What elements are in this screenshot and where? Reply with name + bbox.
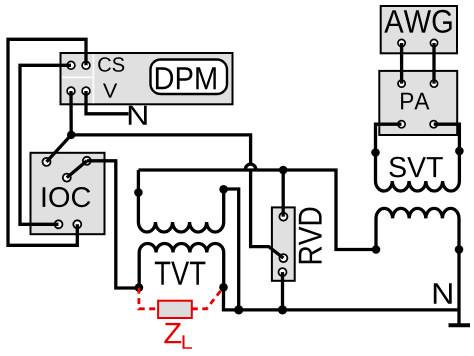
- wire W7: IOC switch blade middle to top-right terminal: [67, 161, 87, 178]
- wire W1: DPM CS-right terminal up-left-down to IOC bottom-right terminal: [8, 39, 86, 245]
- junction dot on neutral line below RVD: [278, 305, 287, 314]
- wire W4: switch blade from node A diagonal to IOC top-left terminal: [47, 135, 72, 162]
- wire W8: IOC top-right terminal right and down to TVT secondary left end: [87, 161, 139, 288]
- RVD terminal top: [279, 213, 287, 221]
- PA terminal top-left: [398, 80, 405, 87]
- SVT secondary right node dot: [455, 245, 464, 254]
- IOC terminal bottom-left: [55, 220, 63, 228]
- DPM internal divider lines: [92, 54, 94, 103]
- wire W3: DPM V-left terminal down to node A: [69, 91, 72, 135]
- label DPM: [156, 67, 216, 89]
- wire: RVD bottom terminal down to neutral line: [281, 272, 284, 310]
- DPM terminal CS-left: [67, 61, 75, 69]
- label IOC: [43, 187, 91, 207]
- node A junction dot: [67, 131, 75, 139]
- SVT primary right feed dot: [455, 147, 464, 156]
- wire: AWG left to PA left input: [400, 43, 403, 84]
- label PA: [401, 93, 429, 110]
- node dot: RVD top tap on bus: [279, 166, 288, 175]
- box IOC (switch box) body: [31, 153, 105, 234]
- transformer SVT secondary winding: [376, 208, 459, 325]
- wire W6: DPM V-right terminal down and right to N label: [86, 91, 129, 114]
- wire: RVD top terminal up to bus: [282, 170, 285, 217]
- wire W5: node A right, down (hops over bus), right, diagonal into RVD middle terminal: [71, 135, 250, 164]
- wire W9: TVT primary right end right and down to bottom neutral line: [224, 189, 239, 310]
- label TVT: [155, 262, 206, 285]
- ground bar terminal: [449, 323, 471, 327]
- label N (neutral, bottom right): [434, 283, 452, 304]
- wire: PA bottom-right to SVT primary right: [434, 124, 460, 181]
- load Z_L red dashed wire left: [139, 288, 158, 309]
- IOC terminal middle: [63, 174, 71, 182]
- label SVT: [389, 157, 442, 178]
- transformer TVT primary winding: [138, 170, 223, 232]
- label AWG: [384, 10, 451, 33]
- RVD terminal bottom: [279, 268, 287, 276]
- transformer SVT primary winding: [376, 181, 460, 191]
- TVT primary left terminal dot: [134, 188, 143, 197]
- TVT primary right terminal dot: [219, 185, 228, 194]
- PA terminal top-right: [430, 80, 437, 87]
- box AWG (waveform generator) body: [381, 6, 457, 53]
- wire hop: W5 vertical hops over horizontal bus at y=170: [245, 164, 256, 170]
- transformer TVT secondary winding: [139, 244, 224, 288]
- SVT primary left feed dot: [371, 148, 380, 157]
- TVT secondary right node dot: [219, 283, 228, 292]
- AWG terminal right: [430, 39, 437, 46]
- label CS: [98, 57, 124, 72]
- IOC terminal top-left: [43, 158, 51, 166]
- SVT secondary left node dot: [372, 245, 381, 254]
- load resistor Z_L body: [158, 301, 192, 318]
- divider RVD strip body: [272, 207, 295, 280]
- IOC terminal bottom-right: [73, 220, 81, 228]
- label Z_L: [164, 323, 181, 343]
- wire: TVT secondary right down to bottom neutral line corner: [224, 287, 459, 310]
- load Z_L red dashed wire right: [192, 289, 223, 309]
- box PA (power amplifier) body: [379, 71, 457, 135]
- TVT secondary left node dot: [135, 283, 144, 292]
- DPM terminal V-left: [67, 87, 75, 95]
- PA terminal bottom-right: [430, 121, 437, 128]
- wire: PA bottom-left to SVT primary left: [376, 124, 402, 181]
- DPM terminal V-right: [82, 87, 90, 95]
- label V: [103, 84, 117, 98]
- RVD terminal middle: [279, 254, 287, 262]
- PA terminal bottom-left: [398, 121, 405, 128]
- box DPM (digital panel meter) body: [61, 53, 233, 104]
- horizontal bus wire y=170: TVT primary left to RVD top tap to SVT secondary feed: [138, 170, 376, 250]
- DPM terminal CS-right: [82, 61, 90, 69]
- junction dot on neutral line below TVT: [234, 305, 243, 314]
- AWG terminal left: [398, 39, 405, 46]
- wire: AWG right to PA right input: [432, 43, 435, 84]
- label RVD (rotated): [299, 208, 322, 264]
- label N (neutral, near DPM): [129, 106, 147, 125]
- IOC terminal top-right: [83, 157, 91, 165]
- DPM display bezel: [151, 60, 228, 95]
- wire W2: DPM CS-left terminal left-down to IOC bottom-left terminal: [20, 65, 71, 224]
